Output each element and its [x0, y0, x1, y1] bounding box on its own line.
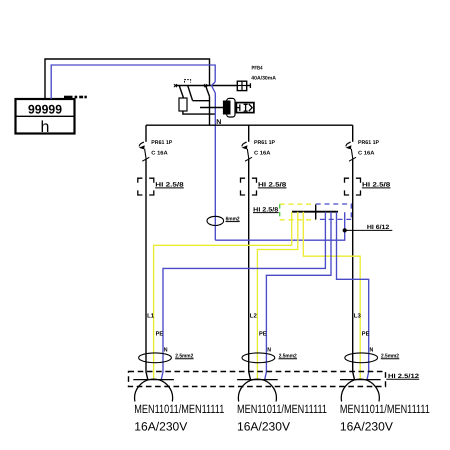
label PE (X2) [259, 330, 267, 337]
terminal block divider [315, 205, 317, 220]
breaker Q3 PR61 1P symbol [346, 142, 357, 161]
wire bus to breaker Q3 [352, 125, 354, 142]
cable marker 2.5mm2 ellipse (X2) [242, 353, 275, 363]
label PR61 1P (Q2) [254, 140, 275, 146]
svg-text:PR61 1P: PR61 1P [358, 140, 379, 146]
svg-text:C 16A: C 16A [254, 150, 271, 156]
wire N main to terminal block (blue) [215, 212, 344, 240]
svg-text:MEN11011/MEN11111: MEN11011/MEN11111 [237, 402, 327, 416]
PE wire to socket X2 [257, 212, 297, 380]
wire bus to breaker Q2 [248, 125, 250, 142]
svg-text:16A/230V: 16A/230V [134, 420, 187, 434]
breaker Q2 PR61 1P symbol [242, 142, 253, 161]
N wire to socket X3 [337, 212, 369, 380]
node N junction dot [343, 228, 347, 232]
breaker Q1 PR61 1P symbol [139, 142, 150, 161]
meter seal dashes [64, 96, 87, 99]
N terminal block (blue dashed) [316, 204, 352, 219]
label C 16A (Q3) [358, 150, 375, 156]
wire fuse to terminal [247, 83, 251, 88]
wire breaker Q1 output down [146, 158, 148, 379]
svg-text:16A/230V: 16A/230V [340, 420, 393, 434]
wire distribution bus [146, 124, 353, 126]
RCD pole blade 3 [206, 86, 210, 96]
cable duct HI 2.5/12 (dashed box) [129, 372, 386, 387]
cable marker 6mm2 ellipse [207, 216, 224, 225]
label 40A/30mA [251, 76, 276, 82]
cable marker 2.5mm2 ellipse (X1) [139, 353, 172, 363]
RCD differential relay box [236, 103, 254, 113]
wire blade2 output [193, 100, 210, 102]
label MEN11011/MEN11111 [237, 402, 327, 416]
label C 16A (Q2) [254, 150, 271, 156]
svg-text:40A/30mA: 40A/30mA [251, 76, 276, 82]
svg-text:PE: PE [259, 330, 267, 337]
label HI 2.5/8 (Q2) [258, 182, 287, 189]
label MEN11011/MEN11111 [134, 402, 224, 416]
RCD linkage (dashed) [185, 80, 191, 83]
label 16A/230V at x=237.0 [237, 420, 290, 434]
label 2.5mm2 (X3) [381, 354, 400, 360]
kWh meter counter value 99999 [28, 103, 62, 117]
svg-text:L1: L1 [147, 312, 155, 319]
RCD terminal cross left [174, 84, 177, 87]
terminal bus bar [292, 211, 338, 213]
label 6mm2 [226, 216, 240, 222]
label PR61 1P (Q3) [358, 140, 379, 146]
RCD trip coil (filled) [223, 98, 235, 117]
label N (X1) [164, 347, 168, 354]
svg-text:HI 6/12: HI 6/12 [367, 224, 390, 231]
label 16A/230V at x=339.9 [340, 420, 393, 434]
RCD pole blade 2 [188, 86, 193, 101]
svg-text:99999: 99999 [28, 103, 62, 117]
RCD test resistor [179, 98, 187, 111]
RCD pole blade 1 [179, 86, 183, 98]
label HI 2.5/8 (Q3) [362, 182, 391, 189]
wire breaker Q2 output down [249, 158, 251, 379]
socket outlet X2 dome [238, 379, 276, 401]
socket outlet X3 terminal line [340, 379, 381, 381]
fuse PFB4 [237, 81, 246, 90]
wire resistor to N [183, 111, 215, 114]
svg-text:L2: L2 [250, 312, 258, 319]
label L2 [250, 312, 258, 319]
wire N riser (blue) [214, 93, 216, 240]
svg-text:16A/230V: 16A/230V [237, 420, 290, 434]
N wire to socket X2 [265, 212, 331, 380]
socket outlet X2 terminal line [237, 379, 278, 381]
label PE (X3) [362, 330, 370, 337]
label 2.5mm2 (X2) [279, 354, 298, 360]
label HI 6/12 [367, 224, 390, 231]
cable marker brackets HI 2.5/8 (Q1) [138, 178, 154, 195]
label HI 2.5/8 (PE block) [253, 206, 279, 213]
label PE (X1) [156, 330, 164, 337]
wire N meter to RCD (blue) [51, 65, 215, 99]
cable marker brackets HI 2.5/8 (Q3) [345, 178, 361, 195]
label L3 [354, 312, 362, 319]
svg-text:C 16A: C 16A [358, 150, 375, 156]
wire L meter to RCD (black) [45, 59, 210, 99]
label MEN11011/MEN11111 [340, 402, 430, 416]
cable marker brackets HI 2.5/8 (Q2) [241, 178, 257, 195]
svg-text:MEN11011/MEN11111: MEN11011/MEN11111 [134, 402, 224, 416]
wire breaker Q3 output down [353, 158, 355, 379]
svg-text:PE: PE [362, 330, 370, 337]
PE wire to socket X3 [303, 212, 360, 380]
kWh meter M1 box [16, 99, 75, 134]
label C 16A (Q1) [151, 150, 168, 156]
label HI 2.5/8 (Q1) [155, 182, 184, 189]
svg-text:PE: PE [156, 330, 164, 337]
svg-text:N: N [370, 347, 374, 354]
label 2.5mm2 (X1) [175, 354, 194, 360]
label HI 2.5/12 [386, 373, 419, 380]
svg-text:PR61 1P: PR61 1P [151, 140, 172, 146]
svg-text:PFB4: PFB4 [252, 65, 263, 71]
label PFB4 [252, 65, 263, 71]
svg-text:L3: L3 [354, 312, 362, 319]
PE wire to socket X1 [154, 212, 292, 380]
label N (X2) [267, 347, 271, 354]
PE terminal block (yellow/green dashed) [280, 204, 316, 220]
socket outlet X1 terminal line [133, 379, 174, 381]
svg-text:MEN11011/MEN11111: MEN11011/MEN11111 [340, 402, 430, 416]
svg-text:PR61 1P: PR61 1P [254, 140, 275, 146]
label PR61 1P (Q1) [151, 140, 172, 146]
cable marker 2.5mm2 ellipse (X3) [345, 353, 378, 363]
RCD N-pole blade (blue jog) [212, 82, 216, 93]
RCD contact cross at N-pole tap [204, 84, 207, 87]
wire RCD output down to bus [209, 96, 211, 125]
socket outlet X1 dome [135, 379, 173, 401]
node N label [216, 119, 221, 126]
RCD trip linkage line [200, 107, 223, 109]
svg-text:C 16A: C 16A [151, 150, 168, 156]
svg-text:N: N [164, 347, 168, 354]
label 16A/230V at x=134.3 [134, 420, 187, 434]
RCD supply line L [175, 85, 237, 87]
N wire to socket X1 [161, 212, 325, 380]
svg-text:N: N [267, 347, 271, 354]
label L1 [147, 312, 155, 319]
label N (X3) [370, 347, 374, 354]
svg-text:h: h [41, 119, 50, 136]
kWh meter unit label h [41, 119, 50, 136]
wire bus to breaker Q1 [145, 125, 147, 142]
label HI 6/12 leader [345, 229, 393, 231]
socket outlet X3 dome [341, 379, 379, 401]
